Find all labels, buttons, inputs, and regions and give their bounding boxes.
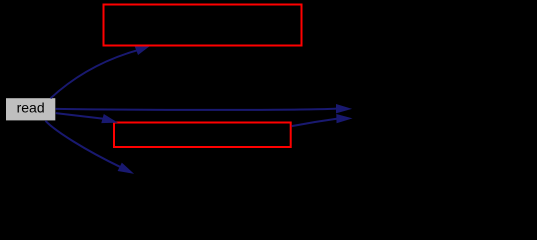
node B (invisible, bottom): [136, 177, 316, 214]
node A (invisible, right): [355, 97, 535, 134]
svg-text:read: read: [17, 100, 45, 116]
wire read to middle red box: [56, 113, 115, 122]
wire read to top red box: [51, 46, 149, 98]
node middle red box: [114, 123, 291, 148]
wire middle red box to node A: [292, 115, 349, 126]
wire read to node A (long horizontal): [56, 105, 349, 112]
wire read to node B (bottom curve): [46, 121, 131, 173]
node top red box: [104, 5, 302, 46]
node read (current node, grey fill): [6, 98, 55, 120]
